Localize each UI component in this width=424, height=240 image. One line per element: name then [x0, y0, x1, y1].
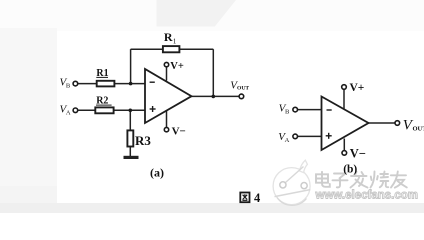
svg-text:4: 4 [254, 191, 261, 205]
svg-text:1: 1 [173, 38, 177, 46]
svg-text:A: A [285, 137, 290, 144]
svg-text:R: R [164, 30, 173, 44]
svg-text:B: B [285, 109, 290, 116]
svg-text:(a): (a) [150, 166, 164, 180]
svg-text:www.elecfans.com: www.elecfans.com [315, 190, 418, 202]
svg-text:V+: V+ [170, 61, 184, 72]
svg-text:V+: V+ [350, 82, 365, 94]
svg-text:(b): (b) [343, 163, 357, 175]
svg-text:V−: V− [350, 147, 366, 161]
svg-text:OUT: OUT [413, 126, 424, 133]
svg-text:A: A [66, 109, 71, 116]
svg-text:OUT: OUT [237, 85, 249, 91]
svg-text:V−: V− [172, 126, 186, 138]
svg-text:B: B [66, 83, 71, 90]
svg-text:R3: R3 [135, 133, 151, 148]
